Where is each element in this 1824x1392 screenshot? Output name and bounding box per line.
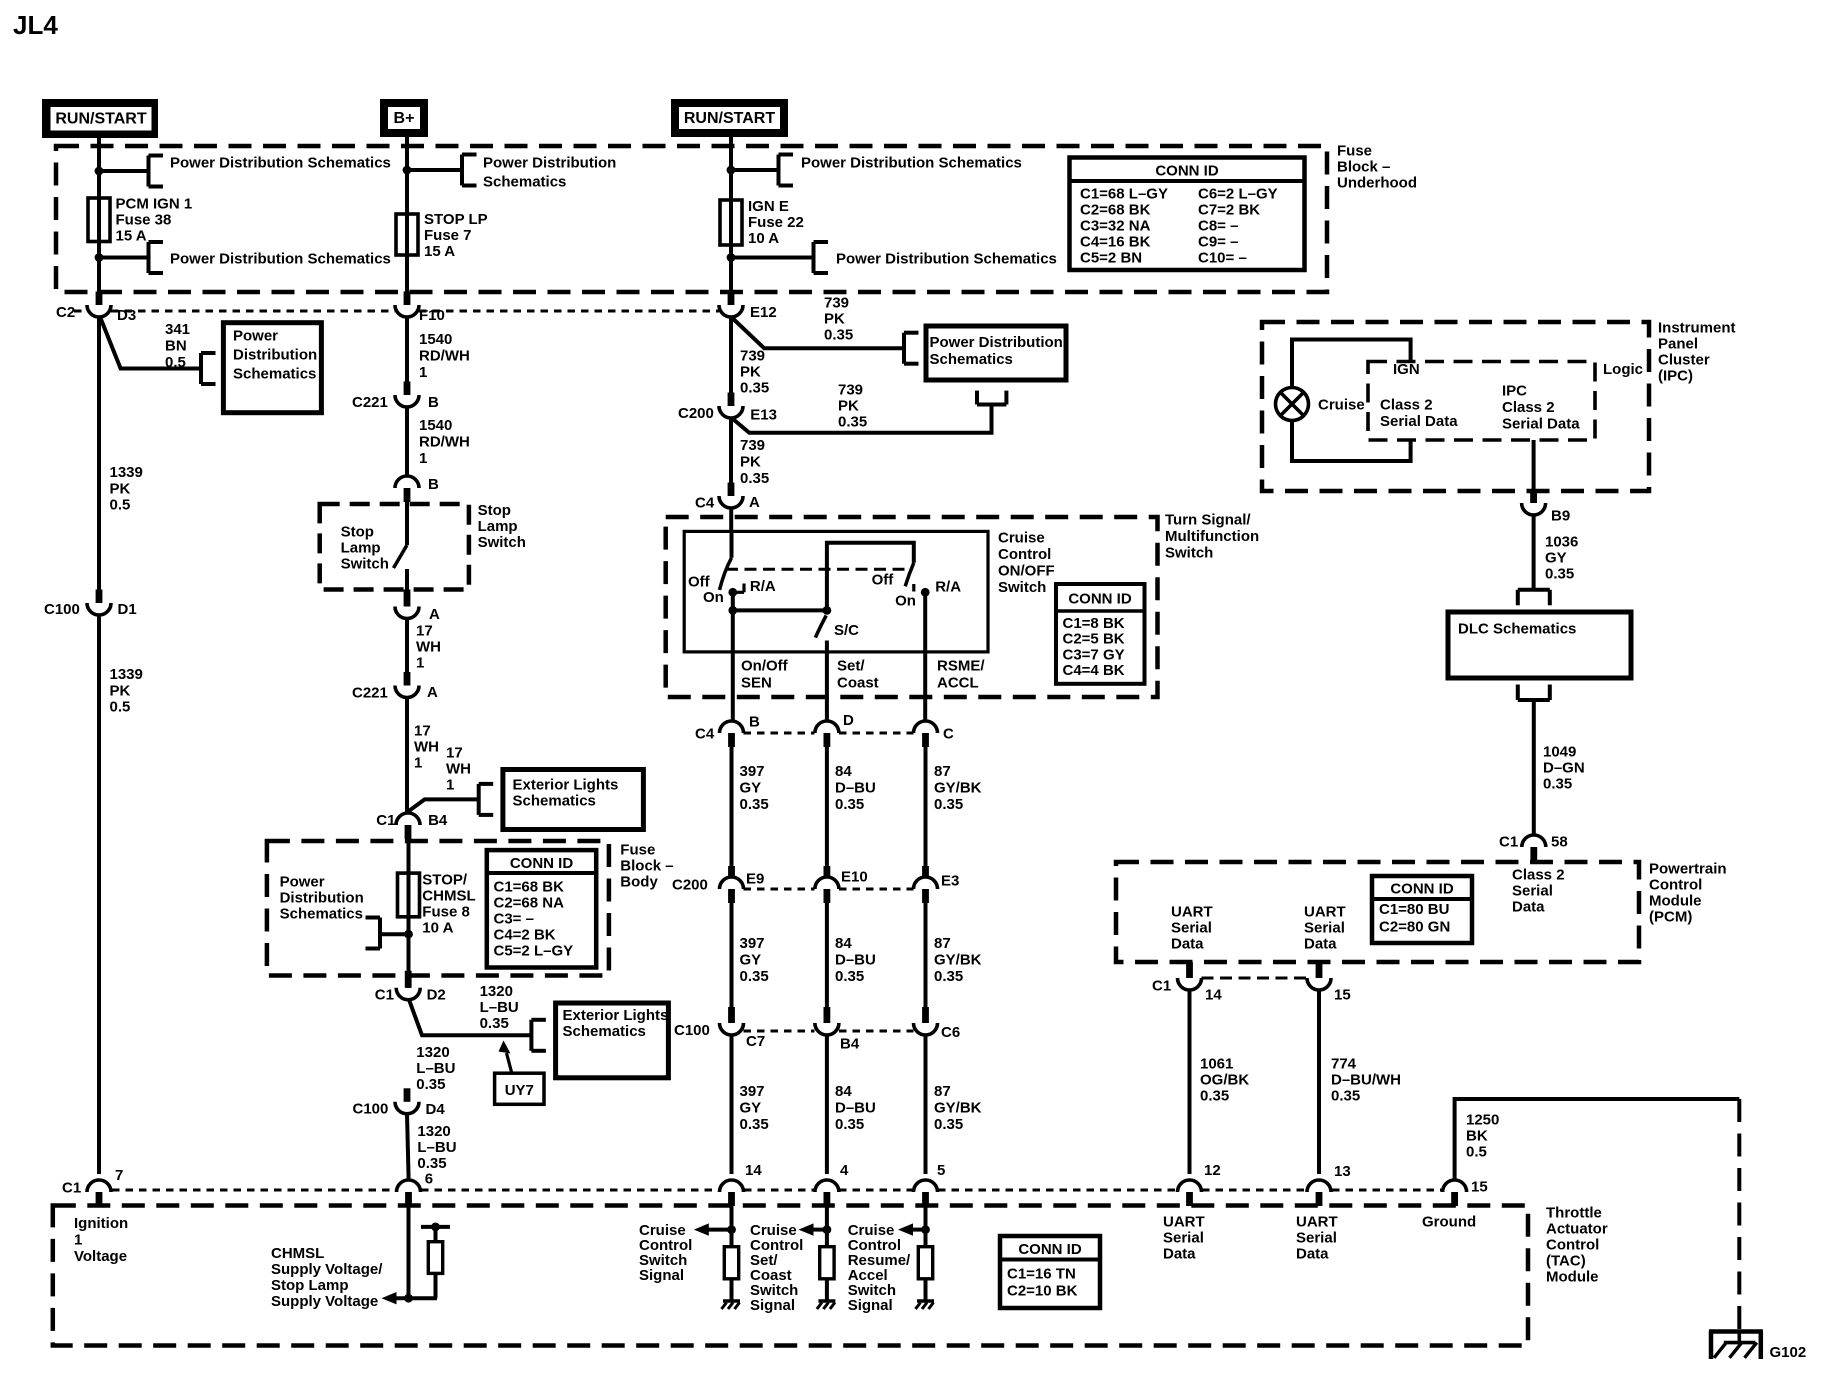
svg-text:0.35: 0.35	[934, 968, 963, 985]
svg-text:15 A: 15 A	[424, 243, 455, 260]
svg-text:STOP LP: STOP LP	[424, 211, 488, 228]
svg-text:C2=68 BK: C2=68 BK	[1080, 202, 1151, 219]
svg-text:WH: WH	[446, 761, 471, 778]
reference box DLC Schematics	[1448, 612, 1631, 678]
svg-text:Schematics: Schematics	[483, 174, 566, 191]
svg-text:Body: Body	[620, 874, 658, 891]
wire resistor to ground (resume/accel)	[924, 1279, 928, 1301]
svg-text:GY: GY	[1545, 550, 1567, 567]
wire branch to Power Distribution Schematics (lower left)	[99, 256, 149, 260]
wire fuse 38 to connector C2 pin D3	[97, 242, 101, 297]
svg-text:CONN ID: CONN ID	[1068, 591, 1132, 608]
wire bracket to STOP/CHMSL fuse	[380, 932, 409, 936]
svg-text:Class 2: Class 2	[1502, 399, 1555, 416]
label circuit 774 D-BU/WH 0.35	[1331, 1056, 1401, 1105]
svg-text:Control: Control	[1649, 877, 1702, 894]
svg-text:Serial: Serial	[1163, 1230, 1204, 1247]
svg-text:Schematics: Schematics	[563, 1023, 646, 1040]
fuse PCM IGN 1 Fuse 38 15 A	[88, 196, 110, 244]
wire branch B4 to Exterior Lights Schematics	[408, 799, 479, 812]
svg-text:1: 1	[74, 1232, 82, 1249]
svg-text:CONN ID: CONN ID	[1018, 1241, 1082, 1258]
junction fuse 8 output	[404, 930, 413, 939]
svg-text:Power Distribution Schematics: Power Distribution Schematics	[170, 155, 391, 172]
label Set/Coast	[837, 658, 879, 692]
label IPC Class 2 Serial Data	[1502, 383, 1580, 433]
label UART Serial Data (TAC 13)	[1296, 1214, 1338, 1263]
wire PCM 15 to TAC 13 (circuit 774)	[1317, 990, 1321, 1174]
svg-text:0.5: 0.5	[110, 699, 131, 716]
label Class 2 Serial Data (PCM)	[1512, 867, 1565, 916]
connector C4 pin C	[914, 721, 955, 747]
svg-text:A: A	[749, 494, 760, 511]
svg-text:1320: 1320	[417, 1123, 450, 1140]
wire TAC 4 internal (set/coast signal)	[825, 1206, 829, 1247]
contact dot R/A (right switch)	[921, 588, 930, 597]
svg-text:0.35: 0.35	[416, 1076, 445, 1093]
svg-text:BK: BK	[1466, 1128, 1488, 1145]
wire cruise lamp to IGN	[1292, 340, 1411, 389]
wire on/off sen out of box	[731, 610, 735, 721]
svg-text:Exterior Lights: Exterior Lights	[513, 777, 619, 794]
label circuit 17 WH 1 (left)	[414, 723, 439, 772]
svg-text:D2: D2	[427, 987, 446, 1004]
label Powertrain Control Module (PCM)	[1649, 861, 1727, 926]
connector TAC pin 14	[720, 1180, 744, 1206]
svg-text:B9: B9	[1551, 508, 1570, 525]
svg-text:D: D	[843, 712, 854, 729]
label circuit 84 D-BU 0.35 (row 1)	[835, 763, 876, 813]
label UART Serial Data (PCM left)	[1171, 904, 1213, 953]
svg-text:1540: 1540	[419, 417, 452, 434]
label Cruise Control Switch Signal	[639, 1222, 692, 1284]
junction set/coast signal	[823, 1225, 832, 1234]
label G102	[1770, 1344, 1807, 1361]
wire R/A contact out of box	[923, 592, 927, 721]
label fuse 38	[116, 196, 193, 245]
label circuit 1339 PK 0.5 (upper)	[110, 464, 143, 514]
svg-text:B+: B+	[394, 110, 415, 127]
reference bracket Exterior Lights Schematics (B4)	[479, 784, 494, 815]
wire TAC 15 ground run to G102	[1455, 1099, 1740, 1180]
svg-text:0.35: 0.35	[1545, 566, 1574, 583]
svg-text:GY: GY	[740, 1100, 762, 1117]
svg-text:C8= –: C8= –	[1198, 218, 1238, 235]
label pin 6	[425, 1171, 433, 1188]
module box Fuse Block - Underhood (dashed)	[56, 146, 1327, 292]
svg-text:D–BU/WH: D–BU/WH	[1331, 1072, 1401, 1089]
svg-text:Lamp: Lamp	[341, 540, 381, 557]
connector C2 pin F10	[395, 292, 445, 325]
svg-text:C5=2 L–GY: C5=2 L–GY	[494, 943, 574, 960]
label circuit 1339 PK 0.5 (lower)	[110, 666, 143, 716]
svg-text:15: 15	[1471, 1179, 1488, 1196]
svg-text:C4=16 BK: C4=16 BK	[1080, 234, 1151, 251]
svg-text:D3: D3	[117, 307, 136, 324]
label Cruise Control ON/OFF Switch	[998, 530, 1055, 597]
svg-text:Cruise: Cruise	[1318, 397, 1365, 414]
svg-text:UART: UART	[1163, 1214, 1205, 1231]
junction on B+ circuit	[403, 166, 412, 175]
arrow cruise control resume/accel switch signal	[898, 1223, 926, 1235]
svg-text:D–BU: D–BU	[835, 952, 876, 969]
svg-text:Switch: Switch	[1165, 545, 1213, 562]
svg-text:CHMSL: CHMSL	[271, 1245, 324, 1262]
svg-text:C200: C200	[672, 877, 708, 894]
svg-text:C2: C2	[56, 304, 75, 321]
arrow cruise control switch signal	[694, 1223, 732, 1235]
connector stop lamp switch pin B	[395, 476, 439, 502]
svg-text:PCM IGN 1: PCM IGN 1	[116, 196, 193, 213]
wire F10 to C221 B	[405, 317, 409, 395]
wire D4 to TAC connector 6 (circuit 1320)	[407, 1114, 409, 1180]
svg-text:Switch: Switch	[478, 534, 526, 551]
wire branch to Power Distribution Schematics (mid right)	[731, 256, 814, 260]
svg-text:C10= –: C10= –	[1198, 250, 1247, 267]
svg-text:1: 1	[416, 655, 424, 672]
svg-text:739: 739	[740, 437, 765, 454]
svg-text:1250: 1250	[1466, 1112, 1499, 1129]
svg-text:1: 1	[414, 755, 422, 772]
svg-text:15: 15	[1334, 987, 1351, 1004]
wire branch D2 to Exterior Lights Schematics	[409, 1001, 531, 1036]
label UY7 with arrow	[495, 1041, 544, 1105]
label Power Distribution Schematics (lower left)	[170, 251, 391, 268]
svg-text:D–GN: D–GN	[1543, 760, 1585, 777]
svg-text:C4: C4	[695, 495, 715, 512]
svg-text:RUN/START: RUN/START	[684, 110, 775, 127]
svg-text:C1=8 BK: C1=8 BK	[1063, 615, 1125, 632]
junction S/C	[823, 606, 832, 615]
wire resistor to CHMSL node	[434, 1273, 438, 1298]
power feed RUN/START (right)	[671, 99, 788, 137]
label pin 4	[840, 1162, 849, 1179]
table CONN ID (cruise switch)	[1056, 584, 1145, 684]
svg-text:GY/BK: GY/BK	[934, 1100, 982, 1117]
connector TAC pin 4	[815, 1180, 839, 1206]
resistor resume/accel signal	[918, 1247, 932, 1279]
svg-text:E12: E12	[750, 304, 777, 321]
svg-text:WH: WH	[414, 739, 439, 756]
resistor CHMSL	[428, 1242, 442, 1274]
svg-text:UART: UART	[1296, 1214, 1338, 1231]
svg-text:Supply Voltage/: Supply Voltage/	[271, 1261, 383, 1278]
svg-text:ON/OFF: ON/OFF	[998, 563, 1055, 580]
svg-text:Stop: Stop	[478, 502, 511, 519]
module box Stop Lamp Switch (dashed)	[320, 504, 469, 590]
svg-text:UY7: UY7	[505, 1082, 534, 1099]
svg-text:BN: BN	[165, 338, 187, 355]
connector C4 pin A (cruise switch)	[695, 483, 760, 512]
label On (right switch)	[895, 593, 916, 610]
reference bracket Power Distribution Schematics (fuse block body)	[366, 918, 381, 949]
svg-text:0.35: 0.35	[740, 1116, 769, 1133]
svg-text:341: 341	[165, 321, 190, 338]
connector C1 pin D2	[375, 971, 446, 1004]
svg-text:Instrument: Instrument	[1658, 320, 1736, 337]
label Cruise (lamp)	[1318, 397, 1365, 414]
svg-text:Fuse 7: Fuse 7	[424, 227, 472, 244]
svg-text:Fuse: Fuse	[1337, 143, 1372, 160]
label Fuse Block - Body	[620, 842, 673, 891]
svg-text:15 A: 15 A	[116, 228, 147, 245]
svg-text:0.35: 0.35	[1543, 776, 1572, 793]
svg-text:Stop Lamp: Stop Lamp	[271, 1277, 349, 1294]
svg-text:C7: C7	[746, 1033, 765, 1050]
wire E13 to C4 A (circuit 739)	[729, 418, 733, 490]
svg-text:17: 17	[446, 745, 463, 762]
svg-text:0.35: 0.35	[740, 968, 769, 985]
svg-text:L–BU: L–BU	[416, 1060, 455, 1077]
label Power Distribution Schematics (fuse block body)	[280, 874, 364, 923]
svg-text:Logic: Logic	[1603, 361, 1643, 378]
svg-text:0.5: 0.5	[165, 354, 186, 371]
junction on circuit 341 (lower)	[95, 253, 104, 262]
svg-text:GY/BK: GY/BK	[934, 952, 982, 969]
svg-text:87: 87	[934, 1083, 951, 1100]
connector B9	[1522, 490, 1571, 525]
wire DLC to C1 58 (circuit 1049)	[1532, 700, 1536, 835]
svg-text:STOP/: STOP/	[422, 872, 468, 889]
resume/accel switch blade	[905, 563, 914, 587]
svg-text:Data: Data	[1296, 1246, 1329, 1263]
wire C1 B4 through STOP/CHMSL fuse to C1 D2	[407, 835, 411, 988]
svg-text:RSME/: RSME/	[937, 658, 985, 675]
reference cup below Power Distribution Schematics (E13)	[977, 391, 1006, 405]
svg-text:0.35: 0.35	[740, 796, 769, 813]
label circuit 87 GY/BK 0.35 (row 2)	[934, 935, 982, 985]
svg-text:10 A: 10 A	[748, 230, 779, 247]
svg-text:17: 17	[416, 623, 433, 640]
table CONN ID (fuse block body)	[487, 850, 596, 967]
svg-text:C100: C100	[44, 601, 80, 618]
wire IPC class 2 serial data to B9	[1532, 440, 1536, 497]
svg-text:1049: 1049	[1543, 744, 1576, 761]
svg-text:C1=16 TN: C1=16 TN	[1007, 1266, 1076, 1283]
svg-text:GY: GY	[740, 780, 762, 797]
svg-text:58: 58	[1551, 834, 1568, 851]
svg-text:Module: Module	[1649, 893, 1702, 910]
label circuit 1049 D-GN 0.35	[1543, 744, 1585, 793]
svg-text:C2=80 GN: C2=80 GN	[1379, 919, 1450, 936]
svg-text:WH: WH	[416, 639, 441, 656]
svg-text:Power Distribution Schematics: Power Distribution Schematics	[170, 251, 391, 268]
contact R/A mark (left switch)	[728, 584, 744, 597]
wire resistor to ground (switch signal)	[730, 1279, 734, 1301]
wire B+ feed to STOP LP fuse	[405, 137, 409, 214]
wire top bar to resistor	[434, 1227, 438, 1242]
svg-text:B4: B4	[840, 1036, 860, 1053]
reference bracket Power Distribution Schematics (mid right)	[814, 242, 829, 273]
wire On contact to junction	[731, 592, 735, 610]
svg-text:7: 7	[115, 1167, 123, 1184]
stop lamp switch contact and blade	[394, 501, 408, 590]
label Instrument Panel Cluster (IPC)	[1658, 320, 1736, 385]
svg-text:C1=80 BU: C1=80 BU	[1379, 901, 1449, 918]
wire TAC 14 internal (cruise control switch signal)	[730, 1206, 734, 1247]
svg-text:C1: C1	[1152, 978, 1171, 995]
label pin 14	[745, 1162, 762, 1179]
svg-text:87: 87	[934, 763, 951, 780]
connector C200 pin E3	[914, 866, 960, 903]
svg-text:IGN E: IGN E	[748, 198, 789, 215]
wire C4 D to C200 E10 (circuit 84)	[825, 747, 829, 877]
wire E13 branch to Power Distribution Schematics	[732, 406, 991, 433]
svg-text:Power Distribution Schematics: Power Distribution Schematics	[836, 251, 1057, 268]
connector TAC pin 13	[1307, 1180, 1331, 1206]
junction on IGN E circuit (upper)	[727, 166, 736, 175]
connector TAC pin 6	[397, 1180, 421, 1206]
connector stop lamp switch pin A	[395, 590, 440, 624]
connector row dotted line (C2)	[74, 310, 719, 313]
svg-text:Block –: Block –	[620, 858, 673, 875]
svg-text:Fuse 38: Fuse 38	[116, 212, 172, 229]
reference bracket Power Distribution Schematics (upper right)	[779, 155, 794, 186]
wire RUN/START feed to IGN E fuse	[729, 137, 733, 200]
junction cruise switch signal	[727, 1225, 736, 1234]
svg-text:B4: B4	[428, 812, 448, 829]
label Throttle Actuator Control (TAC) Module	[1546, 1205, 1608, 1286]
wire C7 to TAC 14 (circuit 397)	[730, 1035, 734, 1174]
label Cruise Control Set/Coast Switch Signal	[750, 1222, 803, 1314]
svg-text:Signal: Signal	[750, 1297, 795, 1314]
svg-text:0.35: 0.35	[835, 796, 864, 813]
label CHMSL Supply Voltage / Stop Lamp Supply Voltage	[271, 1245, 383, 1310]
label Off (left switch)	[688, 574, 711, 591]
svg-text:CONN ID: CONN ID	[510, 855, 574, 872]
label circuit 1320 L-BU 0.35 (bottom)	[417, 1123, 456, 1172]
label circuit 1320 L-BU 0.35 (middle)	[416, 1044, 455, 1093]
svg-text:Exterior Lights: Exterior Lights	[563, 1007, 669, 1024]
label Ignition 1 Voltage	[74, 1215, 128, 1265]
wire C4 A into on/off switch	[729, 508, 733, 558]
resistor CHMSL pull-up top bar	[421, 1223, 450, 1232]
svg-text:UART: UART	[1304, 904, 1346, 921]
label circuit 1320 L-BU 0.35 (top)	[480, 983, 519, 1032]
label circuit 397 GY 0.35 (row 1)	[740, 763, 769, 813]
svg-text:1339: 1339	[110, 464, 143, 481]
svg-text:14: 14	[745, 1162, 762, 1179]
svg-text:Switch: Switch	[998, 579, 1046, 596]
svg-text:Throttle: Throttle	[1546, 1205, 1602, 1222]
svg-text:CONN ID: CONN ID	[1155, 163, 1219, 180]
svg-text:Ignition: Ignition	[74, 1215, 128, 1232]
svg-text:D–BU: D–BU	[835, 780, 876, 797]
label fuse 22	[748, 198, 804, 247]
ground (resume/accel)	[916, 1301, 935, 1309]
svg-text:E10: E10	[841, 869, 868, 886]
svg-text:Serial: Serial	[1304, 920, 1345, 937]
svg-text:CHMSL: CHMSL	[422, 888, 475, 905]
svg-text:(TAC): (TAC)	[1546, 1253, 1586, 1270]
connector TAC pin 15 (ground)	[1443, 1180, 1467, 1206]
svg-text:Schematics: Schematics	[280, 906, 363, 923]
svg-text:B: B	[428, 394, 439, 411]
reference bracket Power Distribution Schematics (E12)	[904, 333, 919, 364]
svg-text:C221: C221	[352, 685, 388, 702]
wire S/C top loop to resume/accel switch	[827, 543, 914, 611]
svg-text:739: 739	[740, 348, 765, 365]
reference bracket Power Distribution Schematics (B+ column)	[462, 155, 477, 186]
svg-text:C5=2 BN: C5=2 BN	[1080, 250, 1142, 267]
svg-text:C1: C1	[62, 1180, 81, 1197]
svg-text:IPC: IPC	[1502, 383, 1527, 400]
svg-text:C4: C4	[695, 726, 715, 743]
contact mark (right switch)	[912, 584, 915, 592]
label Power Distribution Schematics (upper left)	[170, 155, 391, 172]
svg-text:Control: Control	[1546, 1237, 1599, 1254]
junction on circuit 1 (upper)	[95, 167, 104, 176]
resistor cruise switch signal	[724, 1247, 738, 1279]
label circuit 17 WH 1 (right)	[446, 745, 471, 794]
label circuit 341 BN 0.5	[165, 321, 190, 371]
svg-text:C6: C6	[941, 1024, 960, 1041]
label circuit 87 GY/BK 0.35 (row 1)	[934, 763, 982, 813]
svg-text:D4: D4	[426, 1101, 446, 1118]
svg-text:17: 17	[414, 723, 431, 740]
svg-text:0.35: 0.35	[934, 1116, 963, 1133]
svg-text:Signal: Signal	[639, 1267, 684, 1284]
svg-text:C1=68 L–GY: C1=68 L–GY	[1080, 186, 1168, 203]
arrow cruise control set/coast switch signal	[799, 1223, 827, 1235]
indicator lamp Cruise	[1276, 388, 1309, 421]
svg-text:C221: C221	[352, 394, 388, 411]
label circuit 739 PK 0.35 (E12 branch)	[824, 295, 853, 344]
connector C200 pin E10	[815, 866, 868, 903]
svg-text:D–BU: D–BU	[835, 1100, 876, 1117]
svg-text:1339: 1339	[110, 666, 143, 683]
label Off (right switch)	[872, 572, 895, 589]
power feed RUN/START (left)	[42, 99, 158, 138]
svg-text:Serial: Serial	[1296, 1230, 1337, 1247]
wire G102 drop (dashed)	[1737, 1099, 1741, 1329]
wire PCM 14 to TAC 12 (circuit 1061)	[1188, 990, 1192, 1174]
label pin 15 (ground)	[1471, 1179, 1488, 1196]
connector C1 pin 58 (PCM)	[1499, 834, 1568, 864]
connector C100 pin B4	[815, 1007, 860, 1053]
svg-text:C100: C100	[353, 1101, 389, 1118]
label Ground (TAC 15)	[1422, 1214, 1476, 1231]
label UART Serial Data (TAC 12)	[1163, 1214, 1205, 1263]
svg-text:1320: 1320	[480, 983, 513, 1000]
ground (switch signal)	[722, 1301, 741, 1309]
svg-text:Module: Module	[1546, 1269, 1599, 1286]
fuse STOP LP Fuse 7 15 A	[396, 212, 418, 257]
connector C2 pin D3	[56, 292, 136, 325]
svg-text:0.35: 0.35	[838, 414, 867, 431]
svg-text:Lamp: Lamp	[478, 518, 518, 535]
svg-text:C2=68 NA: C2=68 NA	[494, 895, 565, 912]
svg-text:0.35: 0.35	[835, 968, 864, 985]
label pin 13	[1334, 1163, 1351, 1180]
svg-text:Turn Signal/: Turn Signal/	[1165, 512, 1251, 529]
svg-text:Power Distribution Schematics: Power Distribution Schematics	[801, 155, 1022, 172]
svg-text:Off: Off	[872, 572, 895, 589]
svg-text:Actuator: Actuator	[1546, 1221, 1608, 1238]
svg-text:Panel: Panel	[1658, 336, 1698, 353]
connector row dashed (C100 C7/B4/C6)	[744, 1030, 914, 1033]
wire C4 C to C200 E3 (circuit 87)	[924, 747, 928, 877]
S/C switch blade	[815, 616, 826, 638]
svg-text:Stop: Stop	[341, 524, 374, 541]
reference bracket Power Distribution Schematics (lower left)	[149, 242, 164, 273]
svg-text:397: 397	[740, 1083, 765, 1100]
wire CHMSL horizontal with arrow	[382, 1292, 438, 1304]
wire E10 to C100 B4 (circuit 84)	[825, 903, 829, 1010]
svg-text:E9: E9	[746, 871, 764, 888]
svg-text:397: 397	[740, 763, 765, 780]
svg-text:Voltage: Voltage	[74, 1248, 127, 1265]
